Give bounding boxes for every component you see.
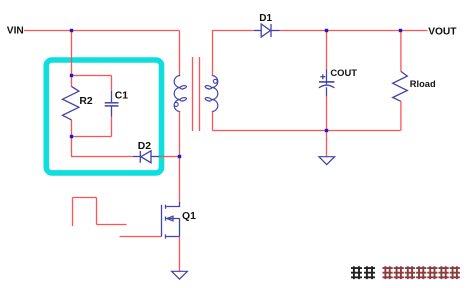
ground (output rail) [319, 157, 335, 165]
node dot D2/drain junction [178, 155, 181, 158]
node dot R2/C1 top junction [70, 74, 73, 77]
transistor Q1 (N-channel MOSFET) [162, 202, 180, 239]
transformer core line right [199, 57, 201, 131]
wire R2 top lead [71, 76, 73, 87]
watermark text 头条 [351, 266, 375, 279]
node dot R2/C1 bottom junction [70, 135, 73, 138]
wire COUT top lead [326, 31, 328, 70]
node dot COUT bottom junction [325, 129, 328, 132]
wire VIN top rail to transformer primary [24, 30, 180, 32]
wire snubber bottom node to C1 [72, 136, 112, 138]
wire snubber left leg down to D2 [72, 137, 134, 157]
snubber highlight box (cyan) [46, 60, 161, 173]
resistor R2 [63, 86, 79, 120]
capacitor C1 [105, 91, 119, 117]
wire primary bottom lead to Q1 drain [179, 112, 181, 202]
transformer core line left [192, 57, 194, 131]
inductor T1 primary winding [174, 76, 187, 112]
wire snubber drop from VIN rail [71, 31, 73, 77]
diode D2 (cathode left) [133, 151, 159, 163]
wire output ground stub [326, 131, 328, 157]
wire Rload bottom lead [400, 101, 402, 130]
wire COUT bottom lead [326, 97, 328, 131]
svg-text:VIN: VIN [7, 26, 24, 37]
secondary phase dot [213, 79, 217, 83]
svg-text:Rload: Rload [410, 79, 436, 89]
wire Rload top lead [400, 31, 402, 72]
svg-text:D2: D2 [138, 141, 152, 152]
wire D1 cathode to VOUT [280, 30, 428, 32]
node dot Rload top junction [399, 29, 402, 32]
wire D2 anode to drain node [159, 156, 179, 158]
wire C1 bottom lead [111, 117, 113, 137]
svg-text:Q1: Q1 [182, 211, 196, 222]
svg-text:C1: C1 [115, 91, 129, 102]
svg-text:COUT: COUT [330, 67, 357, 78]
svg-text:R2: R2 [79, 96, 93, 107]
inductor T1 secondary winding [205, 76, 218, 112]
wire C1 top lead [111, 76, 113, 92]
wire secondary top lead up to D1 [213, 31, 254, 76]
resistor Rload [393, 71, 408, 101]
pulse waveform annotation (gate drive) [73, 198, 127, 227]
diode D1 (anode left, cathode right) [254, 24, 280, 37]
wire transformer primary top lead [179, 31, 181, 76]
wire R2 bottom lead [71, 120, 73, 137]
watermark text @李工谈元器件 [383, 266, 460, 279]
svg-text:VOUT: VOUT [428, 26, 457, 37]
wire Q1 gate lead [120, 236, 162, 238]
capacitor COUT (polarized) [319, 69, 335, 96]
svg-text:D1: D1 [259, 13, 272, 24]
wire bottom output rail [213, 130, 401, 132]
wire snubber top node to C1 [72, 75, 112, 77]
primary phase dot [174, 102, 178, 106]
node dot VIN/snubber junction [70, 29, 73, 32]
wire Q1 source to ground [179, 237, 181, 272]
ground (Q1 source) [172, 271, 188, 279]
node dot COUT top junction [325, 29, 328, 32]
wire secondary bottom lead [212, 112, 214, 131]
